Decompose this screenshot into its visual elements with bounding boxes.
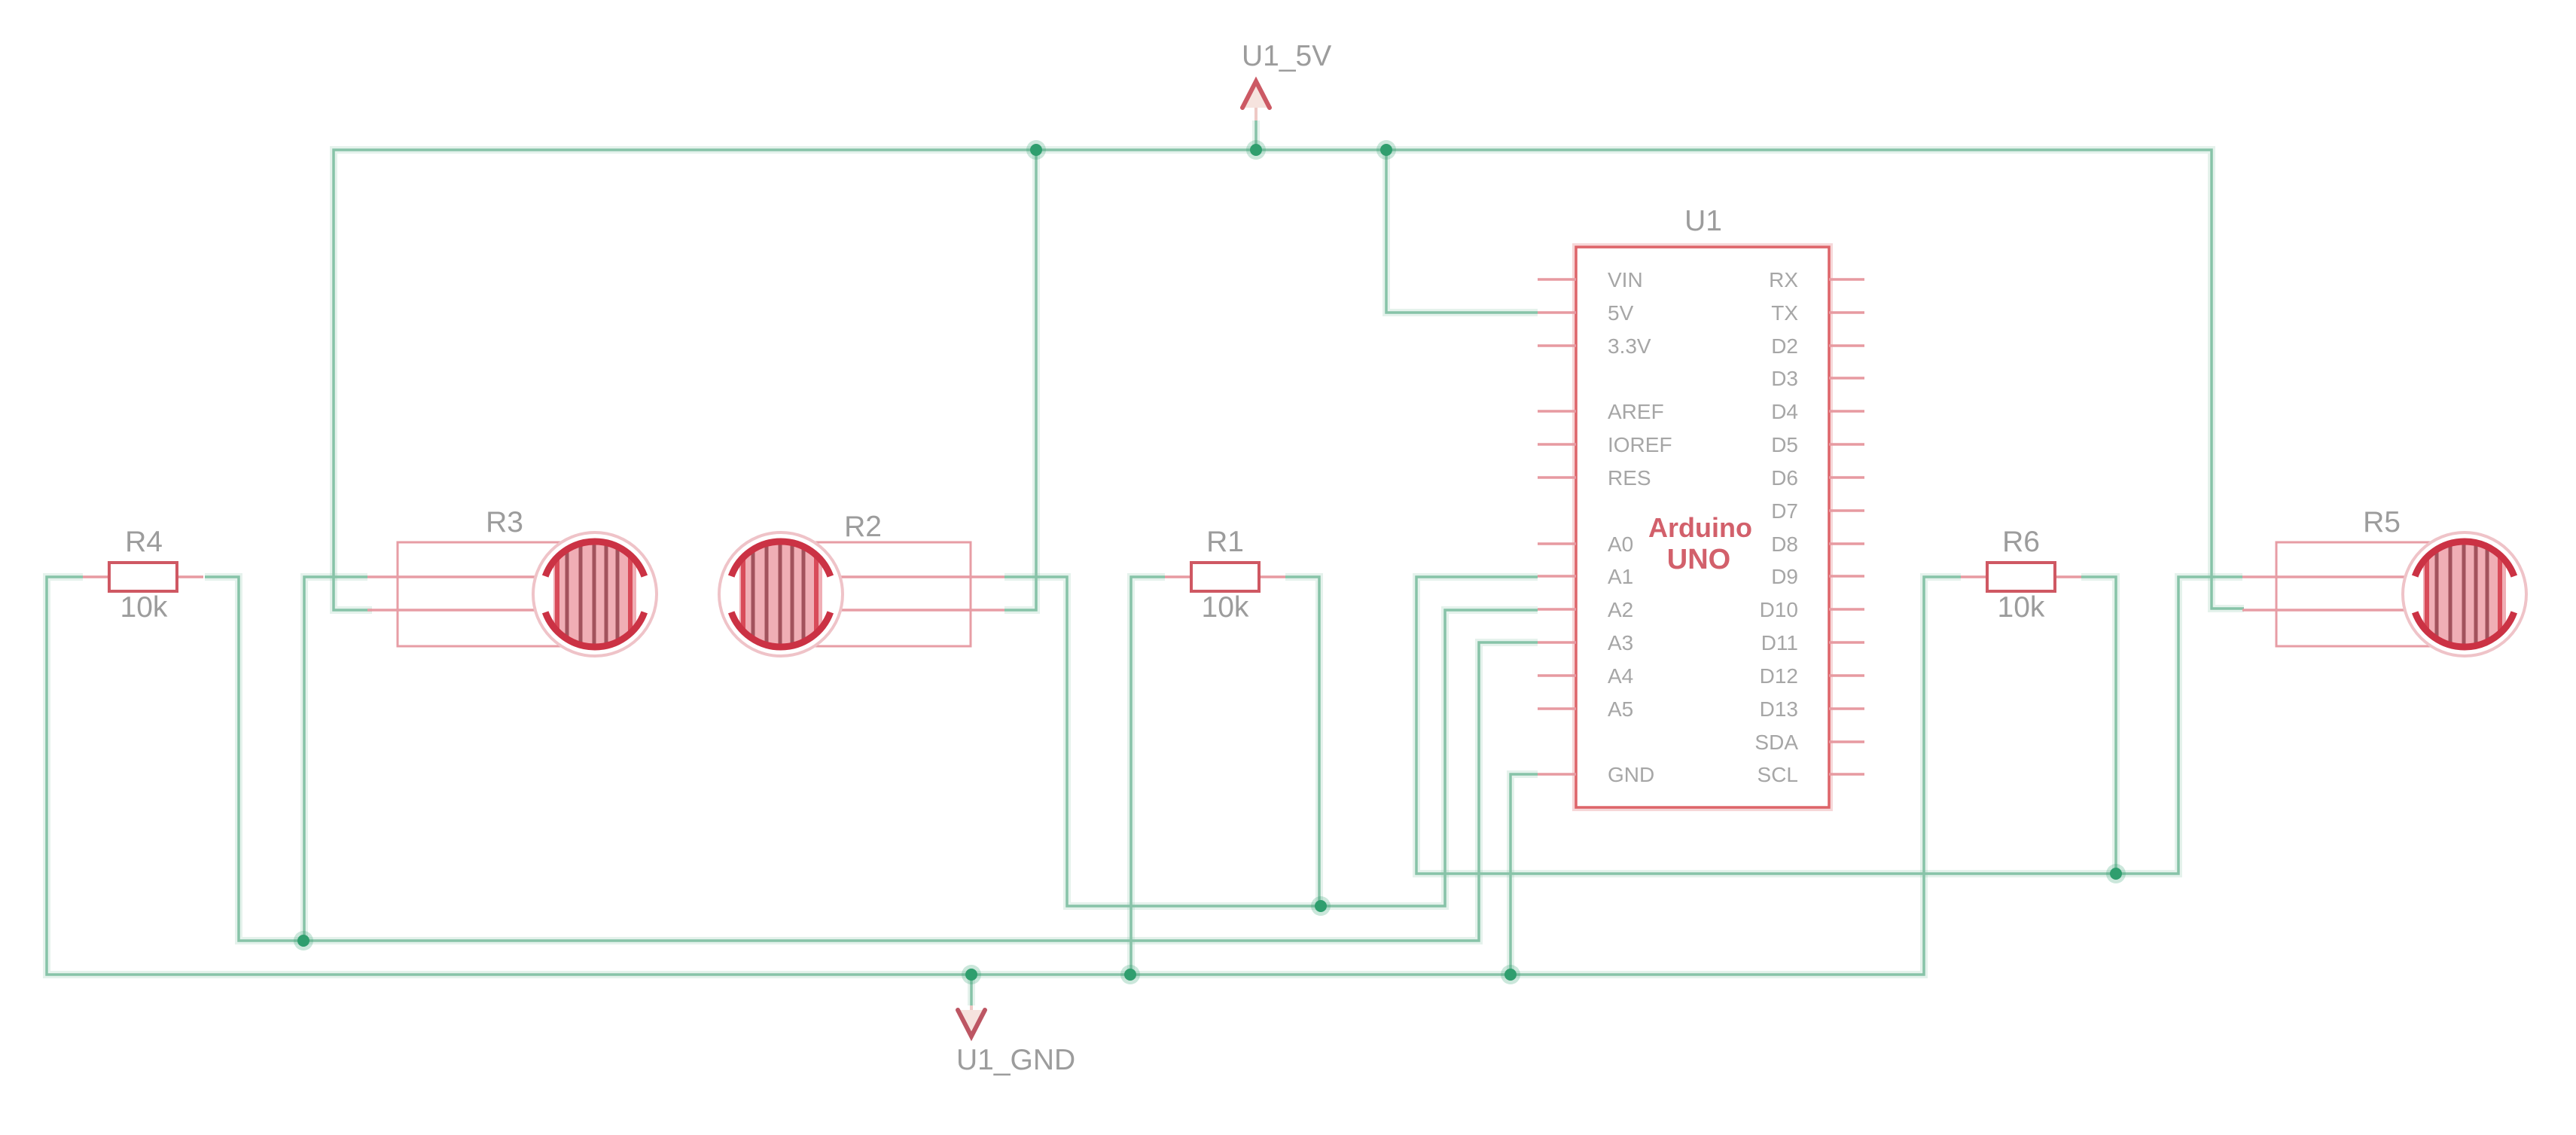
resistor R6 [1961,563,2081,591]
resistor R1 [1165,563,1285,591]
wire net A3 from R4 right to U1 [205,577,1538,941]
U1 pin RX [1769,268,1864,291]
svg-text:D9: D9 [1771,565,1798,588]
svg-text:R5: R5 [2363,506,2401,539]
U1 pin D8 [1771,532,1864,556]
wire net GND stub to U1_GND symbol [968,975,975,1005]
U1 pin SCL [1757,763,1864,786]
svg-text:SCL: SCL [1757,763,1798,786]
svg-text:D11: D11 [1761,631,1798,654]
svg-text:D4: D4 [1771,400,1798,423]
U1 pin D11 [1761,631,1864,654]
wire net GND drop from R1 left lead [1131,577,1165,975]
svg-text:A2: A2 [1608,598,1633,621]
junction 5V rail / U1 5V pin [1376,140,1396,160]
U1 pin SDA [1754,731,1864,754]
wire net GND rail from R4 left to R6 left [47,577,1961,975]
svg-text:D2: D2 [1771,334,1798,358]
svg-text:A4: A4 [1608,664,1633,688]
U1 pin D4 [1771,400,1864,423]
wire net GND from U1 GND pin [1511,774,1538,975]
svg-text:D13: D13 [1760,697,1798,721]
svg-text:RX: RX [1769,268,1798,291]
U1 pin D10 [1760,598,1864,621]
Arduino UNO U1 [1576,247,1829,807]
svg-text:GND: GND [1608,763,1654,786]
junction 5V rail / U1_5V [1246,140,1266,160]
svg-text:AREF: AREF [1608,400,1664,423]
U1 pin A2 [1538,598,1633,621]
svg-text:R3: R3 [486,506,523,539]
U1 pin GND [1538,763,1654,786]
U1 pin D5 [1771,433,1864,456]
svg-text:R6: R6 [2002,526,2040,558]
U1 pin AREF [1538,400,1664,423]
U1 pin A3 [1538,631,1633,654]
U1 pin A1 [1538,565,1633,588]
U1 pin D13 [1760,697,1864,721]
U1 pin D2 [1771,334,1864,358]
svg-text:D3: D3 [1771,367,1798,390]
photoresistor R2 [719,532,1004,656]
svg-text:D5: D5 [1771,433,1798,456]
svg-text:10k: 10k [120,591,168,624]
power symbol U1_5V [1242,81,1270,121]
U1 pin D3 [1771,367,1864,390]
junction GND rail / U1_GND [962,965,981,984]
svg-text:UNO: UNO [1667,544,1730,575]
svg-text:5V: 5V [1608,301,1634,325]
svg-text:R4: R4 [125,526,163,558]
junction 5V rail / R2 [1026,140,1046,160]
U1 pin IOREF [1538,433,1672,456]
U1 pin D7 [1771,499,1864,523]
svg-text:A5: A5 [1608,697,1633,721]
photoresistor R3 [367,532,657,656]
U1 pin D9 [1771,565,1864,588]
junction A1 line / R6 [2106,864,2126,883]
junction GND rail / R1 [1120,965,1140,984]
svg-text:D7: D7 [1771,499,1798,523]
resistor R4 [83,563,203,591]
wire net A2 from R2 terminal 1 to U1 [1004,577,1538,906]
svg-text:10k: 10k [1998,591,2045,624]
svg-text:A3: A3 [1608,631,1633,654]
U1 pin RES [1538,466,1651,490]
wire net A1 drop from R6 right lead [2081,577,2116,874]
svg-text:RES: RES [1608,466,1651,490]
svg-text:D12: D12 [1760,664,1798,688]
svg-text:3.3V: 3.3V [1608,334,1651,358]
svg-text:A1: A1 [1608,565,1633,588]
svg-text:10k: 10k [1202,591,1249,624]
ground symbol U1_GND [958,1005,985,1036]
svg-text:SDA: SDA [1754,731,1798,754]
svg-text:U1_5V: U1_5V [1242,40,1331,72]
wire net 5V to U1 5V pin [1386,150,1538,313]
svg-text:D8: D8 [1771,532,1798,556]
U1 pin TX [1771,301,1864,325]
wire net 5V drop to R2 terminal 2 [1004,150,1036,610]
junction A3 line / R3 [294,931,313,950]
svg-text:VIN: VIN [1608,268,1643,291]
svg-text:IOREF: IOREF [1608,433,1672,456]
junction GND rail / U1 GND pin [1501,965,1520,984]
U1 pin D12 [1760,664,1864,688]
svg-text:U1: U1 [1684,205,1722,237]
svg-text:D10: D10 [1760,598,1798,621]
U1 pin A0 [1538,532,1633,556]
wire net 5V rail with drops to R3 and R5 [334,150,2244,610]
U1 pin 5V [1538,301,1634,325]
svg-text:Arduino: Arduino [1648,512,1752,543]
wire net A2 drop from R1 right lead [1285,577,1319,906]
svg-text:D6: D6 [1771,466,1798,490]
U1 pin A5 [1538,697,1633,721]
svg-text:R1: R1 [1206,526,1244,558]
svg-text:U1_GND: U1_GND [956,1044,1075,1076]
label U1 part name Arduino UNO [1648,512,1752,575]
svg-text:R2: R2 [844,511,882,543]
svg-text:A0: A0 [1608,532,1633,556]
svg-text:TX: TX [1771,301,1798,325]
U1 pin D6 [1771,466,1864,490]
photoresistor R5 [2242,532,2526,656]
wire net 5V stub to U1_5V symbol [1252,121,1260,150]
U1 pin VIN [1538,268,1643,291]
wire net A1 from U1 to R5 terminal 1 [1416,577,2242,874]
wire net A3 drop from R3 terminal 1 [304,577,367,941]
U1 pin 3.3V [1538,334,1651,358]
junction A2 line / R1 [1311,896,1331,916]
U1 pin A4 [1538,664,1633,688]
